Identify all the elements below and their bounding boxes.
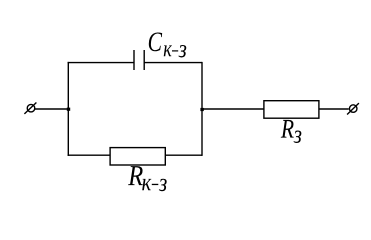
capacitor C_K-E plates: [134, 50, 144, 70]
wire bottom right corner up to node B: [201, 109, 203, 156]
wire resistor R_E to right terminal: [319, 108, 349, 110]
wire node B to resistor R_E: [202, 108, 264, 110]
terminal right: [347, 103, 359, 114]
node B junction dot: [200, 108, 203, 111]
wire bottom left to resistor R_K-E: [68, 154, 111, 156]
wire resistor R_K-E to bottom right corner: [165, 154, 202, 156]
terminal left: [24, 103, 36, 114]
wire left terminal to node A: [35, 108, 69, 110]
label subscript E of R_E: [294, 131, 302, 144]
wire node A up: [67, 62, 69, 109]
label subscript K of C_K-E: [164, 45, 172, 56]
label subscript E of C_K-E: [178, 45, 186, 58]
node A junction dot: [67, 108, 70, 111]
label subscript K of R_K-E: [142, 179, 151, 190]
label R of R_K-E: [128, 166, 143, 185]
label subscript E of R_K-E: [159, 179, 167, 192]
resistor R_K-E body: [110, 148, 165, 165]
wire top left to capacitor: [68, 62, 134, 64]
wire capacitor to top right corner: [144, 62, 202, 64]
label subscript dash of C_K-E: [172, 50, 178, 51]
wire top right corner down to node B: [201, 62, 203, 109]
resistor R_E body: [264, 101, 319, 119]
label C of C_K-E: [149, 32, 162, 51]
label subscript dash of R_K-E: [152, 184, 159, 185]
label R of R_E: [281, 120, 294, 138]
wire node A down: [67, 109, 69, 156]
